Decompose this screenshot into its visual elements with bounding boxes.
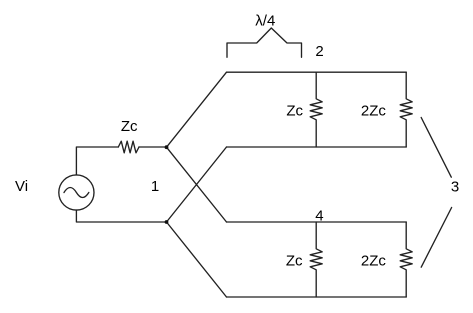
wire top rail of upper section xyxy=(227,71,407,73)
svg-text:2Zc: 2Zc xyxy=(361,103,387,120)
wire diagonal lower node up to upper section (crossover) xyxy=(167,147,227,222)
wire top rail of lower section xyxy=(227,221,407,223)
resistor Zc upper (vertical) xyxy=(310,72,322,147)
wire diagonal node1 up to top rail xyxy=(167,72,227,147)
wire source bottom to lower node xyxy=(76,210,166,222)
svg-text:Vi: Vi xyxy=(15,178,28,195)
node 1 junction dot upper xyxy=(165,145,169,149)
wire bottom rail of upper section xyxy=(227,146,407,148)
wire bottom rail of lower section xyxy=(227,296,407,298)
wire diagonal node1 down to lower section (crossover) xyxy=(167,147,227,222)
svg-text:3: 3 xyxy=(451,178,459,195)
resistor Zc lower (vertical) xyxy=(310,222,322,297)
resistor 2Zc upper (vertical) xyxy=(400,72,412,147)
svg-text:Zc: Zc xyxy=(286,253,303,270)
voltage source Vi xyxy=(59,175,94,210)
port 3 pointer lower xyxy=(421,208,451,268)
lambda/4 brace xyxy=(227,28,302,57)
svg-text:Zc: Zc xyxy=(286,103,303,120)
node junction dot lower xyxy=(165,220,169,224)
wire source top to resistor xyxy=(76,147,118,175)
wire diagonal lower node down to bottom rail xyxy=(167,222,227,297)
svg-text:1: 1 xyxy=(151,178,159,195)
svg-text:λ/4: λ/4 xyxy=(255,12,275,29)
svg-text:Zc: Zc xyxy=(121,118,138,135)
wire resistor to node 1 xyxy=(139,146,167,148)
svg-text:2Zc: 2Zc xyxy=(361,253,387,270)
svg-text:4: 4 xyxy=(315,207,323,224)
resistor Zc (series) xyxy=(118,141,139,153)
svg-text:2: 2 xyxy=(315,43,323,60)
resistor 2Zc lower (vertical) xyxy=(400,222,412,297)
port 3 pointer upper xyxy=(421,118,451,178)
